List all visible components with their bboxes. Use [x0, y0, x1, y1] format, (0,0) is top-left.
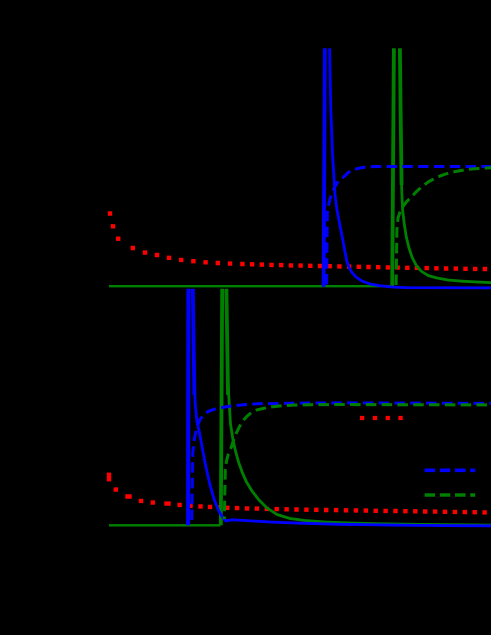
bottom red dotted curve: [107, 475, 111, 479]
legend blue dashed sample: [425, 468, 476, 472]
top green spike left stroke: [392, 48, 394, 286]
bottom blue dashed cumulative curve: [192, 403, 491, 520]
legend red dotted sample: [360, 416, 404, 420]
bottom green spike right stroke and decay: [226, 289, 228, 395]
legend green dashed sample: [425, 493, 476, 497]
top red dotted curve: [108, 214, 487, 270]
bottom blue spike left stroke: [186, 289, 190, 526]
top green dashed cumulative curve: [396, 168, 491, 285]
bottom blue spike right stroke, decay, then floor line: [193, 289, 195, 395]
top blue spike right stroke and decay, then floor line: [330, 48, 491, 288]
top green solid baseline (zero level before spike): [109, 285, 392, 287]
top blue dashed cumulative curve: [327, 167, 491, 285]
bottom green spike left stroke: [221, 289, 222, 526]
bottom green dashed cumulative curve: [224, 405, 491, 520]
top green spike right stroke and decay: [400, 48, 402, 185]
bottom green solid baseline (zero level before spike): [109, 524, 221, 526]
top blue spike left stroke: [324, 48, 325, 286]
